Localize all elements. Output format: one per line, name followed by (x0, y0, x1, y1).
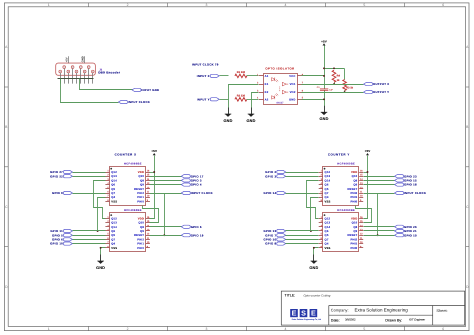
svg-text:+5V: +5V (65, 57, 68, 62)
capacitor C1 1uF (317, 86, 334, 92)
node GPIO 6 (52, 238, 72, 242)
svg-text:RESET: RESET (347, 188, 357, 191)
svg-text:Opto-counter Cutting: Opto-counter Cutting (304, 293, 331, 297)
svg-text:Q7: Q7 (111, 238, 115, 241)
svg-text:GND: GND (289, 98, 296, 101)
node INPUT Y (197, 97, 219, 101)
junction +5V IC1 (153, 171, 155, 173)
svg-text:Q7: Q7 (325, 192, 329, 195)
svg-text:GPIO 18: GPIO 18 (404, 183, 417, 187)
svg-text:IOT Engineer: IOT Engineer (409, 318, 425, 321)
node GPIO 17 (181, 174, 203, 178)
svg-text:Q7: Q7 (111, 192, 115, 195)
svg-text:GND: GND (96, 266, 105, 270)
svg-text:Q10: Q10 (352, 175, 358, 178)
wire +5V rail lower to GND (324, 91, 326, 113)
svg-text:3: 3 (206, 327, 208, 331)
svg-text:COUNTER Y: COUNTER Y (328, 153, 350, 157)
node INPUT CLOCK (181, 191, 213, 195)
power +5V COUNTER X (151, 149, 157, 155)
node OUTPUT X (364, 82, 390, 86)
ESE logo (290, 309, 321, 321)
svg-text:Q6: Q6 (111, 230, 115, 233)
svg-text:GND: GND (223, 119, 232, 123)
svg-text:PHI2: PHI2 (351, 192, 358, 195)
svg-text:E: E (292, 309, 297, 318)
svg-text:HCF4060BE: HCF4060BE (337, 209, 355, 212)
svg-text:DB9 Encoder: DB9 Encoder (98, 71, 121, 75)
wire K1 to GND (229, 85, 259, 114)
svg-text:Q4: Q4 (111, 243, 115, 246)
svg-text:RESET: RESET (347, 234, 357, 237)
wire GPIO 2 (286, 172, 319, 174)
opto internal detector 1 (282, 82, 288, 86)
node GPIO 27 (50, 170, 72, 174)
junction R4 OUTPUT X (333, 83, 335, 85)
svg-text:GPIO 8: GPIO 8 (265, 242, 276, 246)
svg-text:Q9: Q9 (353, 184, 357, 187)
wire GPIO 23 (364, 176, 395, 178)
svg-text:GPIO 22: GPIO 22 (50, 174, 63, 178)
svg-text:OPTO ISOLATOR: OPTO ISOLATOR (265, 66, 294, 70)
power stub +5V (rotated) (65, 56, 68, 63)
wire GPIO 13 (286, 230, 319, 232)
node GPIO 14 (263, 191, 285, 195)
node GPIO 21 (395, 229, 417, 233)
svg-text:PHI1: PHI1 (351, 243, 358, 246)
wire VDD IC1 (150, 172, 155, 174)
svg-text:6: 6 (442, 327, 444, 331)
svg-text:GPIO 4: GPIO 4 (191, 183, 202, 187)
opto internal LED 2 (272, 93, 279, 99)
svg-text:Q13: Q13 (325, 222, 331, 225)
wire VDD IC3 (364, 172, 368, 174)
svg-text:Q13: Q13 (325, 175, 331, 178)
wire +5V feed to VDD IC4 (364, 156, 368, 219)
svg-text:1: 1 (48, 3, 50, 7)
opto internal LED 1 (272, 78, 279, 83)
resistor R4 1k (332, 70, 340, 82)
svg-text:1: 1 (48, 327, 50, 331)
node INPUT X (197, 74, 219, 78)
junction +5V IC3 (367, 171, 369, 173)
svg-text:+5V: +5V (151, 149, 157, 153)
svg-text:PHI0: PHI0 (351, 247, 358, 250)
svg-text:Q12: Q12 (325, 217, 331, 220)
svg-text:5: 5 (363, 327, 365, 331)
svg-text:VDD: VDD (138, 171, 144, 174)
svg-text:VO2: VO2 (290, 91, 296, 94)
node GPIO 6 (181, 225, 202, 229)
node GPIO 26 (395, 225, 417, 229)
junction Q6 net (310, 230, 312, 232)
wire GPIO 3 (150, 180, 182, 182)
svg-text:R3 1k: R3 1k (346, 86, 353, 89)
svg-text:Q12: Q12 (325, 171, 331, 174)
junction GND rail (323, 98, 325, 100)
wire GPIO 15 (364, 180, 395, 182)
IC IC2 HCF4060BE (105, 213, 150, 252)
svg-text:VSS: VSS (111, 200, 117, 203)
svg-text:PHI0: PHI0 (137, 200, 144, 203)
svg-text:Q5: Q5 (325, 234, 329, 237)
svg-text:Q8: Q8 (140, 179, 144, 182)
wire GPIO 9 (73, 193, 106, 195)
svg-text:Q4: Q4 (111, 196, 115, 199)
svg-text:INPUT CLOCK 79: INPUT CLOCK 79 (192, 62, 219, 66)
svg-text:VCC: VCC (289, 75, 295, 78)
svg-text:Extra Solution Engineering: Extra Solution Engineering (355, 308, 409, 313)
wire GND bus (58, 78, 94, 80)
svg-text:E: E (311, 309, 316, 318)
wire VCC to +5V rail (302, 75, 325, 77)
svg-text:Q12: Q12 (111, 171, 117, 174)
svg-text:Q13: Q13 (111, 175, 117, 178)
ground GND COUNTER Y (309, 255, 318, 270)
wire clock drop to IC2 (150, 194, 165, 236)
svg-text:OUTPUT X: OUTPUT X (373, 82, 389, 86)
svg-text:Q9: Q9 (140, 184, 144, 187)
svg-text:VDD: VDD (138, 217, 144, 220)
wire clock drop to IC4 (364, 194, 378, 236)
node GPIO 15 (395, 179, 417, 183)
node GPIO 5 (52, 233, 72, 237)
svg-text:Q9: Q9 (140, 230, 144, 233)
svg-text:VDD: VDD (351, 171, 357, 174)
wire IC1 Q4 to IC2 Q6 (98, 198, 106, 231)
wire IC3 Q4 to IC4 Q6 (311, 198, 319, 231)
junction Q6 net (97, 230, 99, 232)
svg-text:INPUT GND: INPUT GND (141, 88, 159, 92)
junction branch (323, 67, 325, 69)
wire GPIO 18 (364, 184, 395, 186)
wire GPIO 19 (150, 235, 182, 237)
svg-text:Q6: Q6 (111, 184, 115, 187)
junction clock drop (377, 234, 379, 236)
svg-text:4: 4 (284, 3, 286, 7)
power stub GND (rotated) (82, 56, 85, 63)
junction R4 top (333, 67, 335, 69)
wire GPIO 14 (286, 193, 319, 195)
opto internal detector 2 (282, 90, 288, 94)
node GPIO 16 (263, 238, 285, 242)
junction clock drop (163, 234, 165, 236)
node INPUT CLOCK (395, 191, 427, 195)
node OUTPUT Y (364, 90, 390, 94)
svg-text:Drawn By:: Drawn By: (385, 319, 402, 323)
IC IC4 HCF4060BE (319, 213, 364, 252)
svg-text:PHI2: PHI2 (351, 238, 358, 241)
svg-text:GND: GND (309, 266, 318, 270)
svg-text:GPIO 19: GPIO 19 (191, 233, 204, 237)
wire INPUT CLOCK (364, 193, 395, 195)
resistor R3 1k (343, 80, 354, 91)
power +5V COUNTER Y (365, 149, 371, 155)
svg-text:Q14: Q14 (111, 226, 117, 229)
svg-text:Q5: Q5 (325, 188, 329, 191)
wire GPIO 22 (73, 176, 106, 178)
node GPIO 9 (52, 191, 72, 195)
junction VCC rail (323, 75, 325, 77)
svg-text:INPUT CLOCK: INPUT CLOCK (404, 191, 426, 195)
wire K2 to GND (252, 93, 259, 114)
wire GPIO 7 (286, 235, 319, 237)
svg-text:Q7: Q7 (325, 238, 329, 241)
svg-text:HCF4060BE: HCF4060BE (337, 163, 355, 166)
wire VSS to GND (314, 248, 319, 262)
IC IC3 HCF4060BE (319, 167, 364, 206)
svg-text:Q5: Q5 (111, 234, 115, 237)
svg-text:INPUT CLOCK: INPUT CLOCK (128, 100, 150, 104)
svg-text:INPUT X: INPUT X (197, 74, 210, 78)
node GPIO 13 (263, 229, 285, 233)
svg-text:Q14: Q14 (325, 179, 331, 182)
node GPIO 7 (265, 233, 285, 237)
svg-text:5: 5 (363, 3, 365, 7)
wire IC3 to IC4 Q10 (356, 206, 372, 223)
svg-text:VDD: VDD (351, 217, 357, 220)
svg-text:3/9/2562: 3/9/2562 (345, 318, 356, 321)
svg-text:PHI2: PHI2 (137, 238, 144, 241)
wire to R3 top (344, 69, 346, 80)
svg-text:6N137: 6N137 (276, 102, 284, 105)
svg-text:VSS: VSS (325, 247, 331, 250)
svg-text:Q9: Q9 (353, 230, 357, 233)
svg-text:VSS: VSS (111, 247, 117, 250)
svg-text:Q4: Q4 (325, 196, 329, 199)
svg-text:Q6: Q6 (325, 230, 329, 233)
ground GND3 (319, 106, 328, 121)
svg-text:Q4: Q4 (325, 243, 329, 246)
svg-text:Q10: Q10 (138, 175, 144, 178)
wire R1 to opto pin 1 (247, 75, 259, 77)
wire GPIO 17 (150, 176, 182, 178)
svg-text:R2 330: R2 330 (237, 94, 246, 97)
wire VO2 to OUTPUT Y (302, 92, 364, 94)
svg-text:A1: A1 (265, 75, 269, 78)
wire +5V rail upper (324, 46, 326, 89)
svg-text:Q8: Q8 (353, 226, 357, 229)
svg-text:Q14: Q14 (111, 179, 117, 182)
svg-text:PHI2: PHI2 (137, 192, 144, 195)
wire IC3 Q14 to IC4 Q12 (307, 181, 319, 219)
svg-text:TITLE:: TITLE: (285, 294, 296, 298)
svg-text:PHI1: PHI1 (137, 196, 144, 199)
node GPIO 4 (181, 183, 202, 187)
wire GPIO 19 (364, 235, 395, 237)
svg-text:GPIO 9: GPIO 9 (52, 191, 63, 195)
ground GND2 (246, 108, 255, 123)
wire VSS to GND (101, 248, 106, 262)
svg-text:RESET: RESET (134, 234, 144, 237)
wire GPIO 27 (73, 172, 106, 174)
svg-text:PHI1: PHI1 (351, 196, 358, 199)
svg-text:COUNTER X: COUNTER X (115, 153, 137, 157)
svg-text:Sheet:: Sheet: (436, 308, 447, 313)
junction R3 OUTPUT Y (344, 91, 346, 93)
svg-text:Extra Solution Engineering Co.: Extra Solution Engineering Co.,Ltd (292, 318, 321, 321)
wire IC1 to IC2 Q10 (143, 206, 159, 223)
svg-text:INPUT CLOCK: INPUT CLOCK (191, 191, 213, 195)
wire R4 bottom (334, 83, 336, 85)
op-amp U1 opto isolator 6N137 (259, 74, 302, 105)
svg-text:A2: A2 (265, 98, 269, 101)
wire R2 to opto pin 4 (247, 99, 259, 101)
svg-text:1uF: 1uF (329, 89, 333, 92)
wire R3 bottom (344, 91, 346, 93)
title block texts (285, 293, 448, 322)
node GPIO 23 (395, 174, 417, 178)
svg-text:6: 6 (442, 3, 444, 7)
svg-text:VSS: VSS (325, 200, 331, 203)
wire GPIO 26 (364, 226, 395, 228)
ground GND COUNTER X (96, 255, 105, 270)
svg-text:PHI0: PHI0 (351, 200, 358, 203)
ground GND1 (223, 108, 232, 123)
svg-text:K2: K2 (265, 91, 269, 94)
svg-text:RESET: RESET (134, 188, 144, 191)
node GPIO 19 (395, 233, 417, 237)
node GPIO 8 (265, 242, 285, 246)
wire +5V feed to VDD IC2 (150, 156, 155, 219)
svg-text:HCF4060BE: HCF4060BE (124, 163, 142, 166)
svg-text:GPIO 10: GPIO 10 (50, 242, 63, 246)
opto pin names (265, 75, 296, 101)
svg-text:S: S (301, 309, 306, 318)
svg-text:2: 2 (127, 327, 129, 331)
svg-text:Q6: Q6 (325, 184, 329, 187)
junction VSS (100, 247, 102, 249)
title block (281, 291, 464, 325)
wire INPUT CLOCK net (61, 79, 119, 103)
wire GPIO 16 (286, 239, 319, 241)
opto isolation barrier (279, 87, 281, 92)
wire GPIO 8 (286, 243, 319, 245)
wire INPUT CLOCK (150, 193, 182, 195)
svg-text:PHI1: PHI1 (137, 243, 144, 246)
opto pin numbers (257, 73, 304, 99)
node GPIO 18 (395, 183, 417, 187)
wire GPIO 10 (73, 243, 106, 245)
node GPIO 19 (181, 233, 203, 237)
svg-text:GND: GND (319, 117, 328, 121)
wire GPIO 4 (150, 184, 182, 186)
svg-text:2: 2 (127, 3, 129, 7)
svg-text:GND: GND (82, 56, 85, 62)
wire GPIO 3 (286, 176, 319, 178)
junction VSS (313, 247, 315, 249)
wire pullup branch (325, 68, 345, 70)
svg-text:R1 330: R1 330 (237, 71, 246, 74)
svg-text:Q5: Q5 (111, 188, 115, 191)
wire opto GND to rail (302, 99, 325, 101)
svg-text:Q8: Q8 (353, 179, 357, 182)
svg-text:VO1: VO1 (290, 83, 296, 86)
wire VO1 to OUTPUT X (302, 84, 364, 86)
wire GPIO 6 (73, 239, 106, 241)
node GPIO 3 (265, 174, 285, 178)
node GPIO 11 (50, 229, 72, 233)
svg-text:HCF4060BE: HCF4060BE (124, 209, 142, 212)
svg-text:Q8: Q8 (140, 226, 144, 229)
node INPUT CLOCK (119, 100, 151, 104)
node GPIO 10 (50, 242, 72, 246)
node GPIO 3 (181, 179, 202, 183)
svg-text:+5V: +5V (321, 40, 327, 44)
node GPIO 22 (50, 174, 72, 178)
svg-text:Date:: Date: (331, 318, 340, 322)
svg-text:Q14: Q14 (325, 226, 331, 229)
svg-text:GPIO 14: GPIO 14 (263, 191, 276, 195)
IC IC1 HCF4060BE (105, 167, 150, 206)
svg-text:Q12: Q12 (111, 217, 117, 220)
wire GPIO 21 (364, 230, 395, 232)
wire GPIO 6 (150, 226, 182, 228)
svg-text:INPUT Y: INPUT Y (197, 97, 210, 101)
node GPIO 2 (265, 170, 285, 174)
node INPUT GND (132, 88, 159, 92)
svg-text:PHI0: PHI0 (137, 247, 144, 250)
svg-text:GPIO 19: GPIO 19 (404, 233, 417, 237)
svg-text:OUTPUT Y: OUTPUT Y (373, 90, 389, 94)
svg-text:K1: K1 (265, 83, 269, 86)
power +5V opto (321, 40, 327, 46)
wire INPUT Y to R2 (220, 99, 229, 101)
svg-text:GPIO 3: GPIO 3 (265, 174, 276, 178)
svg-text:3: 3 (206, 3, 208, 7)
svg-text:Q10: Q10 (352, 222, 358, 225)
connector J1 DB9 Encoder (56, 63, 96, 84)
resistor R2 330 (235, 94, 247, 101)
wire IC1 Q14 to IC2 Q12 (94, 181, 106, 219)
wire INPUT GND net (80, 79, 133, 90)
svg-text:R4: R4 (337, 75, 341, 78)
resistor R1 330 (235, 71, 247, 78)
svg-text:4: 4 (284, 327, 286, 331)
wire GPIO 5 (73, 235, 106, 237)
svg-text:Q10: Q10 (138, 222, 144, 225)
svg-text:Q13: Q13 (111, 222, 117, 225)
wire INPUT X to R1 (220, 75, 229, 77)
svg-text:+5V: +5V (365, 149, 371, 153)
svg-text:GND: GND (246, 119, 255, 123)
svg-text:Company:: Company: (331, 307, 349, 312)
svg-text:GPIO 6: GPIO 6 (191, 225, 202, 229)
wire GPIO 11 (73, 230, 106, 232)
